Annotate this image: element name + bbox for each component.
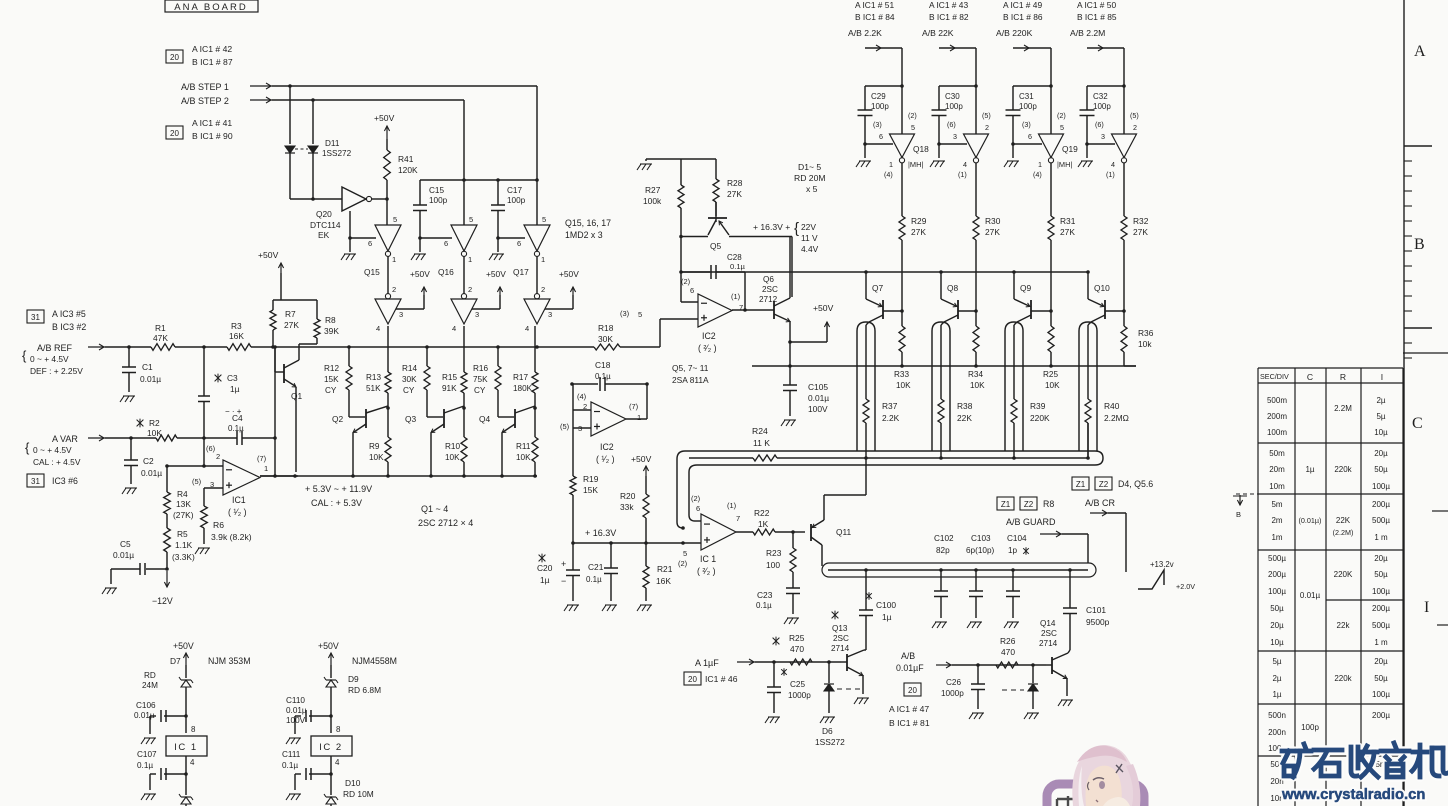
svg-text:(6): (6) bbox=[947, 120, 956, 129]
svg-text:0.01µ: 0.01µ bbox=[140, 374, 161, 384]
svg-text:RD 6.8M: RD 6.8M bbox=[348, 685, 381, 695]
svg-text:8: 8 bbox=[191, 725, 196, 734]
svg-text:(27K): (27K) bbox=[173, 510, 194, 520]
svg-text:C20: C20 bbox=[537, 563, 553, 573]
wire gate left pin bbox=[1013, 143, 1042, 145]
resistor R38 bbox=[940, 325, 942, 399]
svg-text:100p: 100p bbox=[945, 102, 963, 111]
svg-text:5: 5 bbox=[911, 123, 915, 132]
shield loop around R38 bbox=[932, 322, 950, 451]
svg-text:C23: C23 bbox=[757, 590, 773, 600]
capacitor C3 column bbox=[202, 345, 206, 349]
svg-text:R25: R25 bbox=[789, 633, 805, 643]
svg-text:DEF : + 2.25V: DEF : + 2.25V bbox=[30, 366, 83, 376]
svg-text:5: 5 bbox=[638, 310, 642, 319]
svg-text:A VAR: A VAR bbox=[52, 434, 78, 444]
svg-text:1 m: 1 m bbox=[1374, 533, 1388, 542]
resistor R30 27K bbox=[973, 216, 979, 240]
capacitor C15 bbox=[419, 180, 421, 205]
svg-text:15K: 15K bbox=[583, 485, 598, 495]
resistor R8 bbox=[314, 319, 320, 338]
resistor R22 bbox=[736, 531, 753, 533]
svg-text:A IC1 # 51: A IC1 # 51 bbox=[855, 0, 894, 10]
svg-text:(2): (2) bbox=[691, 494, 701, 503]
svg-text:+50V: +50V bbox=[173, 641, 194, 651]
svg-text:1: 1 bbox=[392, 255, 396, 264]
wire STEP2 horizontal bbox=[272, 99, 464, 101]
wire cap branch bbox=[1087, 85, 1124, 87]
svg-text:B: B bbox=[1236, 510, 1241, 519]
resistor R34 bbox=[973, 326, 979, 352]
svg-text:CAL : + 4.5V: CAL : + 4.5V bbox=[33, 457, 81, 467]
svg-text:100m: 100m bbox=[1267, 428, 1287, 437]
svg-text:Q11: Q11 bbox=[836, 527, 852, 537]
svg-text:15K: 15K bbox=[324, 375, 339, 384]
wire Q1 collector up bbox=[298, 344, 300, 360]
svg-text:IC3 #6: IC3 #6 bbox=[52, 476, 78, 486]
svg-text:0.01µ: 0.01µ bbox=[141, 468, 162, 478]
wire R7 R8 top bbox=[273, 299, 317, 301]
svg-text:20µ: 20µ bbox=[1374, 449, 1388, 458]
svg-text:D6: D6 bbox=[822, 726, 833, 736]
svg-text:R15: R15 bbox=[442, 373, 457, 382]
svg-text:2: 2 bbox=[392, 285, 396, 294]
svg-text:R26: R26 bbox=[1000, 636, 1016, 646]
svg-text:4: 4 bbox=[452, 324, 456, 333]
capacitor C1 bbox=[127, 345, 131, 349]
svg-text:10K: 10K bbox=[445, 453, 460, 462]
svg-text:(6): (6) bbox=[1095, 120, 1104, 129]
svg-text:100µ: 100µ bbox=[1268, 587, 1286, 596]
inverter lower col2 bbox=[461, 294, 466, 299]
svg-text:SEC/DIV: SEC/DIV bbox=[1260, 372, 1289, 381]
svg-text:A IC1 # 41: A IC1 # 41 bbox=[192, 118, 232, 128]
capacitor C17 bbox=[497, 180, 499, 205]
rail VREF out bbox=[260, 475, 537, 477]
svg-text:100µ: 100µ bbox=[1372, 587, 1390, 596]
svg-text:51K: 51K bbox=[366, 384, 381, 393]
svg-text:1: 1 bbox=[637, 413, 641, 422]
input arrow A/B 22K bbox=[939, 47, 976, 49]
svg-text:500m: 500m bbox=[1267, 396, 1287, 405]
wire Q5 emitter rail left bbox=[681, 236, 708, 238]
ground C23 bbox=[784, 618, 788, 624]
svg-text:C: C bbox=[1307, 372, 1313, 382]
svg-text:A IC1 # 43: A IC1 # 43 bbox=[929, 0, 968, 10]
wire IC1a minus bbox=[167, 465, 223, 467]
wire Q13 collector bbox=[864, 649, 866, 651]
wire Q7 emitter into shield loop bbox=[866, 322, 869, 325]
svg-text:C1: C1 bbox=[142, 362, 153, 372]
resistor R2 bbox=[156, 435, 177, 441]
inverter lower col3 bbox=[534, 294, 539, 299]
svg-text:27K: 27K bbox=[985, 227, 1000, 237]
resistor R16 bbox=[496, 345, 500, 349]
wire input down A/B 2.2M bbox=[1123, 48, 1125, 134]
net A/B STEP 1 arrow bbox=[250, 85, 272, 87]
svg-text:+13.2v: +13.2v bbox=[1150, 560, 1174, 569]
guard bus tube bbox=[822, 563, 1096, 577]
svg-text:4: 4 bbox=[963, 160, 967, 169]
capacitor C30 100p bbox=[938, 86, 940, 110]
wire IC1a plus bbox=[204, 487, 223, 489]
resistor R23 bbox=[792, 532, 794, 548]
resistor R37 bbox=[865, 325, 867, 399]
shield loop around R39 bbox=[1005, 322, 1023, 451]
svg-text:10K: 10K bbox=[970, 381, 985, 390]
zener D7 bbox=[185, 665, 187, 678]
wire cap branch bbox=[1013, 85, 1051, 87]
svg-text:2SA 811A: 2SA 811A bbox=[672, 375, 709, 385]
svg-text:B IC1 # 85: B IC1 # 85 bbox=[1077, 12, 1117, 22]
svg-text:R25: R25 bbox=[1043, 370, 1058, 379]
wire below IC 2 bbox=[330, 756, 332, 795]
rail base feed 272 bbox=[681, 271, 1088, 273]
svg-text:A/B STEP 1: A/B STEP 1 bbox=[181, 82, 229, 92]
title box ANA BOARD bbox=[165, 0, 258, 12]
wire minus node bbox=[202, 436, 206, 440]
svg-text:180K: 180K bbox=[513, 384, 533, 393]
svg-text:0 ~ + 4.5V: 0 ~ + 4.5V bbox=[33, 445, 72, 455]
svg-text:Q16: Q16 bbox=[438, 267, 454, 277]
svg-text:2: 2 bbox=[468, 285, 472, 294]
net A VAR arrow bbox=[88, 437, 105, 439]
svg-text:EK: EK bbox=[318, 230, 330, 240]
svg-text:C15: C15 bbox=[429, 186, 444, 195]
svg-text:C104: C104 bbox=[1007, 534, 1027, 543]
svg-text:R34: R34 bbox=[968, 370, 983, 379]
wire Q20 input bbox=[290, 198, 342, 200]
arrow B left of table bbox=[1239, 495, 1241, 505]
svg-text:IC1 # 46: IC1 # 46 bbox=[705, 674, 738, 684]
svg-text:0 ~ + 4.5V: 0 ~ + 4.5V bbox=[30, 354, 69, 364]
ic box IC 1 bbox=[166, 736, 207, 756]
svg-text:(2): (2) bbox=[681, 277, 691, 286]
gate triangle Q18 bbox=[890, 134, 915, 158]
wire A VAR rail bbox=[105, 437, 156, 439]
svg-text:R8: R8 bbox=[325, 315, 336, 325]
diode D11a bbox=[285, 146, 295, 153]
wire gate out bbox=[901, 163, 903, 216]
shield loop around R37 bbox=[857, 322, 875, 451]
note 20 box IC1 pins 42/87 bbox=[166, 50, 183, 63]
svg-text:C26: C26 bbox=[946, 678, 961, 687]
svg-text:R41: R41 bbox=[398, 154, 414, 164]
svg-text:(2): (2) bbox=[1057, 111, 1066, 120]
svg-text:20µ: 20µ bbox=[1374, 554, 1388, 563]
svg-text:Q4: Q4 bbox=[479, 414, 491, 424]
inverter Q20 DTC114EK bbox=[342, 187, 366, 211]
transistor Q6 bbox=[773, 301, 775, 319]
svg-text:7: 7 bbox=[736, 514, 740, 523]
svg-text:C106: C106 bbox=[136, 701, 156, 710]
rail +16.3V bbox=[573, 542, 701, 544]
wire Q8 emitter into shield loop bbox=[941, 322, 944, 325]
svg-text:6: 6 bbox=[1028, 132, 1032, 141]
svg-text:33k: 33k bbox=[620, 502, 634, 512]
svg-text:31: 31 bbox=[31, 313, 40, 322]
svg-text:220K: 220K bbox=[1030, 413, 1050, 423]
wire gate left pin bbox=[865, 143, 893, 145]
svg-text:C30: C30 bbox=[945, 92, 960, 101]
svg-text:22V: 22V bbox=[801, 222, 816, 232]
svg-text:(5): (5) bbox=[192, 477, 202, 486]
svg-text:3: 3 bbox=[475, 310, 479, 319]
transistor Q3 bbox=[427, 416, 443, 418]
svg-text:D4, Q5.6: D4, Q5.6 bbox=[1118, 479, 1153, 489]
wire IC2b minus bbox=[681, 301, 698, 303]
svg-text:13K: 13K bbox=[176, 499, 191, 509]
wire loop4 inner to rail bbox=[1087, 423, 1089, 458]
svg-text:A: A bbox=[1414, 43, 1426, 60]
wire C4 to Q1 base bbox=[274, 347, 276, 438]
svg-text:D9: D9 bbox=[348, 674, 359, 684]
svg-text:5m: 5m bbox=[1271, 500, 1282, 509]
svg-text:(7): (7) bbox=[629, 402, 639, 411]
svg-text:Q3: Q3 bbox=[405, 414, 417, 424]
svg-text:|MH|: |MH| bbox=[1057, 160, 1072, 169]
svg-text:6: 6 bbox=[696, 504, 700, 513]
svg-text:500µ: 500µ bbox=[1372, 621, 1390, 630]
resistor R28 bbox=[715, 159, 717, 179]
wire R18 to IC2 plus bbox=[535, 345, 539, 349]
transistor Q1 bbox=[274, 347, 276, 372]
capacitor C31 100p bbox=[1012, 86, 1014, 110]
wire IC2a out bbox=[626, 418, 647, 420]
inverter lower col1 bbox=[385, 294, 390, 299]
svg-text:220k: 220k bbox=[1334, 674, 1352, 683]
svg-text:R31: R31 bbox=[1060, 216, 1076, 226]
resistor R40 bbox=[1087, 325, 1089, 399]
svg-text:R38: R38 bbox=[957, 401, 973, 411]
svg-text:C102: C102 bbox=[934, 534, 954, 543]
svg-text:Q9: Q9 bbox=[1020, 283, 1032, 293]
svg-text:R20: R20 bbox=[620, 491, 636, 501]
svg-text:( ¹⁄₂ ): ( ¹⁄₂ ) bbox=[228, 507, 247, 517]
svg-text:Q1: Q1 bbox=[291, 391, 303, 401]
note 31 box IC3 5/2 bbox=[27, 310, 44, 323]
op-amp IC1 first half bbox=[223, 460, 260, 495]
svg-text:75K: 75K bbox=[473, 375, 488, 384]
border right vertical bbox=[1403, 0, 1405, 806]
svg-text:NJM4558M: NJM4558M bbox=[352, 656, 397, 666]
svg-text:3: 3 bbox=[1101, 132, 1105, 141]
svg-text:C107: C107 bbox=[137, 750, 157, 759]
svg-text:500µ: 500µ bbox=[1372, 516, 1390, 525]
resistor R6 bbox=[201, 506, 208, 528]
svg-text:10K: 10K bbox=[147, 428, 162, 438]
wire cap branch bbox=[939, 85, 976, 87]
svg-text:{: { bbox=[794, 220, 799, 237]
svg-text:27K: 27K bbox=[727, 189, 742, 199]
svg-text:B IC1 # 86: B IC1 # 86 bbox=[1003, 12, 1043, 22]
svg-text:Q6: Q6 bbox=[763, 275, 774, 284]
capacitor C32 100p bbox=[1086, 86, 1088, 110]
svg-text:2SC: 2SC bbox=[762, 285, 778, 294]
svg-text:A 1µF: A 1µF bbox=[695, 658, 719, 668]
svg-text:100µ: 100µ bbox=[1372, 690, 1390, 699]
ground C5 bbox=[102, 588, 106, 594]
svg-text:+ 16.3V: + 16.3V bbox=[585, 528, 616, 538]
capacitor C100 bbox=[864, 568, 868, 572]
svg-text:100: 100 bbox=[766, 560, 780, 570]
resistor R36 bbox=[1121, 326, 1127, 352]
input arrow A/B 220K bbox=[1013, 47, 1051, 49]
svg-text:+50V: +50V bbox=[486, 269, 506, 279]
label C100 1u bbox=[866, 593, 872, 599]
ground C1 bbox=[120, 396, 124, 402]
svg-text:3: 3 bbox=[548, 310, 552, 319]
svg-text:(3): (3) bbox=[873, 120, 882, 129]
resistor R1 bbox=[151, 344, 175, 351]
svg-text:0.1µ: 0.1µ bbox=[730, 262, 746, 271]
svg-text:50µ: 50µ bbox=[1374, 465, 1388, 474]
inverter upper col3 bbox=[524, 225, 550, 251]
svg-text:50µ: 50µ bbox=[1374, 674, 1388, 683]
resistor R41 bbox=[386, 139, 388, 150]
dashed D6 to Q13 bbox=[837, 688, 860, 690]
capacitor C101 bbox=[1068, 568, 1072, 572]
wire Q3 emitter bbox=[430, 440, 432, 476]
capacitor C111 bbox=[329, 772, 333, 776]
svg-text:Q1 ~ 4: Q1 ~ 4 bbox=[421, 504, 448, 514]
svg-text:5: 5 bbox=[1060, 123, 1064, 132]
svg-text:R7: R7 bbox=[285, 309, 296, 319]
svg-text:(7): (7) bbox=[257, 454, 267, 463]
wire cap branch bbox=[865, 85, 902, 87]
svg-text:+ 5.3V ~ + 11.9V: + 5.3V ~ + 11.9V bbox=[305, 484, 372, 494]
capacitor C2 bbox=[129, 436, 133, 440]
inverter upper col1 bbox=[375, 225, 401, 251]
svg-text:1MD2 x 3: 1MD2 x 3 bbox=[565, 230, 603, 240]
svg-text:0.01µ: 0.01µ bbox=[808, 393, 829, 403]
capacitor C26 bbox=[977, 665, 979, 684]
svg-text:30K: 30K bbox=[402, 375, 417, 384]
wire STEP1 horizontal bbox=[272, 85, 537, 87]
label C25 1000p bbox=[781, 669, 787, 675]
wire R24 line bbox=[689, 457, 753, 459]
svg-text:20: 20 bbox=[170, 53, 179, 62]
wire input down A/B 2.2K bbox=[901, 48, 903, 134]
svg-text:+50V: +50V bbox=[374, 113, 395, 123]
svg-text:100p: 100p bbox=[1019, 102, 1037, 111]
svg-text:1000p: 1000p bbox=[941, 689, 964, 698]
resistor R24 bbox=[753, 455, 777, 461]
svg-text:Q19: Q19 bbox=[1062, 144, 1078, 154]
wire REF rail bbox=[105, 346, 151, 348]
ground R21 bbox=[637, 605, 641, 611]
svg-text:10K: 10K bbox=[369, 453, 384, 462]
svg-text:0.01µ: 0.01µ bbox=[134, 711, 155, 720]
wire -12V bbox=[166, 571, 168, 587]
wire IC2a minus bbox=[572, 384, 574, 410]
wire input down A/B 220K bbox=[1050, 48, 1052, 134]
transistor Q10 bbox=[1087, 272, 1089, 299]
label C20 1u bbox=[539, 555, 546, 562]
svg-text:RD 20M: RD 20M bbox=[794, 173, 826, 183]
svg-text:|MH|: |MH| bbox=[908, 160, 923, 169]
svg-text:( ²⁄₂ ): ( ²⁄₂ ) bbox=[698, 343, 717, 353]
ground C30 bbox=[930, 161, 934, 167]
wire Q10 emitter into shield loop bbox=[1088, 322, 1091, 325]
svg-text:Q14: Q14 bbox=[1040, 619, 1056, 628]
svg-text:200µ: 200µ bbox=[1372, 711, 1390, 720]
note Z1 Z2 boxes D4 bbox=[1072, 477, 1089, 490]
wire Q1 base node to IC1a out bbox=[274, 438, 276, 476]
watermark mascot zhong glyph bbox=[1057, 796, 1079, 806]
wire Q5 collector rail right bbox=[729, 236, 792, 238]
svg-text:2.2M: 2.2M bbox=[1334, 404, 1352, 413]
svg-text:R13: R13 bbox=[366, 373, 381, 382]
net A/B REF arrow bbox=[88, 346, 105, 348]
svg-text:1µ: 1µ bbox=[230, 384, 240, 394]
ground below Q20 bbox=[341, 254, 345, 260]
svg-text:11 K: 11 K bbox=[753, 438, 770, 448]
svg-text:C111: C111 bbox=[282, 750, 301, 759]
svg-text:1SS272: 1SS272 bbox=[815, 737, 845, 747]
svg-text:(1): (1) bbox=[727, 501, 737, 510]
svg-text:2µ: 2µ bbox=[1272, 674, 1281, 683]
resistor R7 bbox=[272, 330, 274, 347]
svg-text:(5): (5) bbox=[560, 422, 570, 431]
capacitor guard 1013 bbox=[1011, 568, 1015, 572]
svg-text:A/B GUARD: A/B GUARD bbox=[1006, 517, 1056, 527]
svg-text:500n: 500n bbox=[1268, 711, 1286, 720]
svg-text:C105: C105 bbox=[808, 382, 828, 392]
resistor R13 bbox=[387, 326, 389, 372]
svg-text:Q2: Q2 bbox=[332, 414, 344, 424]
svg-text:16K: 16K bbox=[656, 576, 671, 586]
svg-text:(3): (3) bbox=[1022, 120, 1031, 129]
svg-text:C32: C32 bbox=[1093, 92, 1108, 101]
wire Q2 emitter bbox=[352, 440, 354, 476]
ground C105 bbox=[781, 420, 785, 426]
watermark text crystalradio chinese bbox=[1282, 746, 1294, 756]
table SEC/DIV grid bbox=[1257, 368, 1259, 806]
svg-text:R22: R22 bbox=[754, 508, 770, 518]
svg-text:R5: R5 bbox=[177, 529, 188, 539]
svg-text:−: − bbox=[561, 576, 566, 586]
capacitor guard 941 bbox=[939, 568, 943, 572]
wire dashed between D11 diodes bbox=[295, 148, 308, 150]
svg-text:4: 4 bbox=[1111, 160, 1115, 169]
svg-text:R32: R32 bbox=[1133, 216, 1149, 226]
section line B-C bbox=[1403, 352, 1448, 354]
svg-text:CY: CY bbox=[403, 386, 415, 395]
svg-text:16K: 16K bbox=[229, 331, 244, 341]
svg-text:100p: 100p bbox=[507, 196, 526, 205]
svg-text:200n: 200n bbox=[1268, 728, 1286, 737]
svg-text:20: 20 bbox=[688, 675, 697, 684]
svg-text:1µ: 1µ bbox=[1305, 465, 1314, 474]
watermark anime mascot frame bbox=[1047, 784, 1144, 806]
svg-text:R24: R24 bbox=[752, 426, 768, 436]
transistor Q9 bbox=[1013, 272, 1015, 299]
svg-text:R8: R8 bbox=[1043, 499, 1054, 509]
capacitor guard 976 bbox=[974, 568, 978, 572]
svg-text:31: 31 bbox=[31, 477, 40, 486]
svg-text:A/B 2.2K: A/B 2.2K bbox=[848, 28, 882, 38]
svg-text:C100: C100 bbox=[876, 600, 896, 610]
svg-text:4: 4 bbox=[525, 324, 529, 333]
svg-text:220K: 220K bbox=[1334, 570, 1353, 579]
resistor R10 10K bbox=[461, 437, 467, 462]
svg-text:I: I bbox=[1381, 372, 1383, 382]
svg-text:IC 2: IC 2 bbox=[319, 742, 342, 753]
wire R41 to inverter col1 top bbox=[386, 199, 388, 225]
wire neg supply node bbox=[165, 567, 169, 571]
svg-text:( ¹⁄₂ ): ( ¹⁄₂ ) bbox=[596, 454, 615, 464]
